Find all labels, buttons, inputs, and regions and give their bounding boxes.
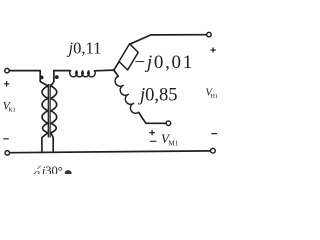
svg-text:j0,85: j0,85 — [138, 86, 178, 106]
wire inductor j0,85 to mid terminal — [139, 112, 167, 123]
transformer T1 secondary winding — [51, 71, 57, 153]
terminal input top-left — [5, 68, 10, 73]
svg-text:j0,11: j0,11 — [67, 39, 102, 58]
wire top-left to transformer primary — [9, 70, 40, 72]
element box -j0,01 — [119, 44, 138, 70]
transformer T1 core — [48, 85, 50, 138]
polarity dot primary — [40, 76, 44, 80]
wire box to top-right terminal — [130, 35, 207, 45]
minus sign input — [4, 138, 9, 140]
terminal input bottom-left — [5, 151, 10, 156]
svg-text:К1: К1 — [8, 107, 16, 114]
wire node to capacitor box — [114, 62, 119, 71]
svg-text:Н1: Н1 — [211, 94, 218, 100]
terminal bottom-right — [211, 148, 216, 153]
polarity dot secondary — [55, 75, 59, 79]
plus sign mid — [150, 130, 155, 135]
wire node to inductor j0,85 — [114, 70, 118, 76]
terminal top-right — [207, 32, 212, 37]
svg-text:М1: М1 — [169, 140, 179, 148]
minus sign mid — [151, 140, 156, 142]
plus sign input — [4, 82, 8, 87]
minus sign right — [212, 133, 217, 135]
svg-text:j30°: j30° — [40, 164, 63, 174]
inductor j0,11 — [70, 71, 96, 77]
wire secondary to inductor — [54, 70, 71, 72]
inductor j0,85 — [115, 76, 139, 113]
wire inductor to node — [95, 69, 114, 72]
transformer T1 primary winding — [40, 71, 48, 153]
plus sign top-right — [211, 48, 215, 52]
svg-text:−j0,01: −j0,01 — [135, 52, 194, 73]
bottom wire — [10, 151, 211, 153]
terminal mid-right — [166, 121, 171, 126]
